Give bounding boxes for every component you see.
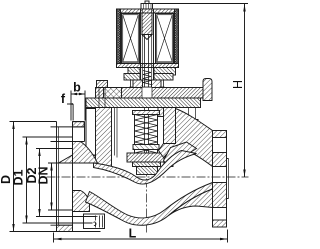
svg-text:f: f <box>61 92 66 106</box>
svg-text:L: L <box>129 227 137 241</box>
gland studs <box>130 81 132 88</box>
body outer left recess line <box>86 109 96 156</box>
dimension D2 extension lines <box>36 148 73 150</box>
seat ring lip <box>133 162 161 167</box>
stem white gap in flange <box>142 88 152 99</box>
inlet bore bottom line <box>57 209 73 211</box>
raised face right <box>228 159 230 199</box>
coil housing right wall <box>175 9 179 68</box>
dimension D2 line <box>39 149 41 217</box>
plunger armature <box>142 13 152 35</box>
spring top plate <box>133 111 160 115</box>
dimension H bottom arrow <box>243 170 245 177</box>
coil housing left wall <box>117 9 121 68</box>
right stud shank below <box>188 108 190 120</box>
svg-text:DN: DN <box>37 166 51 184</box>
bridge-outlet junction wedge <box>164 142 197 167</box>
body bottom inner wall band <box>86 183 213 226</box>
raised face line <box>58 127 60 225</box>
seat ring <box>137 167 158 175</box>
dimension DN line <box>51 163 53 210</box>
plunger tube walls <box>140 9 142 88</box>
drain boss <box>84 214 105 229</box>
neck right wall <box>164 108 176 151</box>
bonnet underside step right <box>158 108 167 117</box>
coil winding right <box>156 14 174 64</box>
gland nut left <box>133 80 143 88</box>
svg-text:D1: D1 <box>12 169 26 185</box>
flange plate lower hatch <box>213 183 227 208</box>
disc guide right <box>164 158 173 167</box>
dimension H top arrow <box>243 4 245 12</box>
stud bolt right capsule <box>203 79 212 101</box>
bracket left foot <box>128 68 140 76</box>
dimension L line <box>54 238 228 240</box>
solenoid top nut <box>141 4 153 10</box>
plunger spring <box>143 71 151 85</box>
stem guide lines <box>114 108 116 156</box>
flange hub ring top <box>73 121 85 123</box>
flange hub bottom hatched <box>73 191 90 212</box>
flange hub top hatched <box>73 142 98 164</box>
bonnet flange gasket block <box>104 88 122 99</box>
spring <box>134 115 136 154</box>
coil housing bottom plate <box>117 64 179 68</box>
flange plate top edge <box>51 126 85 128</box>
dimension D1 line <box>26 137 28 223</box>
flange top bolt hole bottom line <box>51 141 85 143</box>
lower right hub hatched <box>169 189 213 216</box>
svg-text:H: H <box>231 80 245 89</box>
gland horizontal lines <box>132 79 163 81</box>
dimension b <box>71 93 85 95</box>
coil housing top plate <box>117 9 179 13</box>
valve disc <box>127 153 166 162</box>
flange face line <box>56 122 58 232</box>
flange back line <box>72 122 74 232</box>
stud bolt left <box>97 81 108 88</box>
bracket right foot with connector <box>154 68 176 76</box>
gland nut right <box>152 80 162 88</box>
dimension L extension lines <box>53 233 55 243</box>
centerline stub <box>145 1 149 4</box>
spring washer <box>133 145 159 150</box>
dimension D extension lines <box>10 121 57 123</box>
bridge wall (S-curve) <box>94 151 197 185</box>
dimension D1 extension lines <box>23 136 73 138</box>
flange plate lines <box>212 131 214 228</box>
flange top cap right <box>213 131 227 138</box>
coil winding left <box>122 14 140 64</box>
flange bottom cap right <box>213 220 227 227</box>
svg-text:b: b <box>73 81 81 95</box>
centerline vertical <box>146 149 148 233</box>
flange plate upper hatch <box>213 153 227 167</box>
right stud nut below <box>186 120 198 129</box>
plate wedge above bore <box>59 155 73 163</box>
centerline horizontal <box>47 176 249 178</box>
body flange bar <box>86 98 201 108</box>
dimension H line <box>244 4 246 178</box>
bonnet flange bar <box>96 88 204 99</box>
dimension DN extension lines <box>48 162 73 164</box>
flange bottom cap <box>57 225 73 231</box>
inlet bore top line <box>57 162 96 164</box>
outlet top wall band <box>159 109 213 167</box>
dimension H leader line <box>153 3 249 5</box>
dimension D line <box>13 122 15 232</box>
valve stem <box>144 35 146 153</box>
neck left wall <box>96 108 112 169</box>
